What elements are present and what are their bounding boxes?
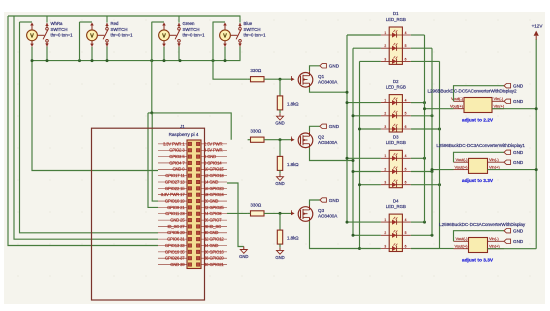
junction right D4 row 2 [431,234,434,237]
wire D4 row 3 right [411,248,440,250]
buck U2 pins and pin names [454,157,505,170]
LED D3 body [389,150,402,187]
LED D2 body [389,95,402,132]
wire buck U3 Vin+ to +12V rail [488,248,537,250]
svg-text:5: 5 [405,167,407,171]
wire top rail [8,15,241,17]
svg-text:1: 1 [384,31,386,35]
svg-text:D1: D1 [393,11,399,16]
connector J1 pin header strip [187,140,201,269]
grid dots [17,19,530,276]
junction right D4 row 1 [423,221,426,224]
junction D3 row 3 [358,183,361,186]
svg-text:SWITCH: SWITCH [244,27,261,32]
junction right D3 row 1 [423,157,426,160]
resistor R2 330 [250,129,264,143]
svg-text:16 GPIO23: 16 GPIO23 [204,186,224,191]
junction D2 row 1 [346,101,349,104]
voltage probe V Blue [220,23,231,47]
wire R3 to gate [248,212,251,214]
svg-text:thr=0 ton=1: thr=0 ton=1 [244,33,267,38]
svg-text:1.8kΩ: 1.8kΩ [287,162,299,167]
wire D2 row 2 left [353,115,381,117]
svg-text:Q2: Q2 [318,135,325,140]
wire source Q2 to LED column [310,148,354,161]
wire bracket switch2 riser [79,21,81,23]
junction +12V rail buck1 [535,107,538,110]
svg-text:22 GPIO25: 22 GPIO25 [204,205,224,210]
power symbol +12V [532,23,544,39]
wire source Q1 to LED column [310,87,348,92]
connector J1 boundary box [92,128,205,300]
wire D1 row 1 left [347,34,381,36]
svg-text:thr=0 ton=1: thr=0 ton=1 [111,33,134,38]
svg-text:6: 6 [405,181,407,185]
svg-text:GND: GND [275,181,284,186]
svg-text:6: 6 [405,57,407,61]
svg-text:GND: GND [513,160,524,165]
gate pin arrow Q1 [291,76,295,81]
svg-text:Vin(+): Vin(+) [489,164,500,169]
svg-text:18 GPIO24: 18 GPIO24 [204,192,224,197]
svg-text:GPIO11 23: GPIO11 23 [165,211,185,216]
wire R2 to gate [248,139,251,141]
wire D3 row 1 right [411,157,425,159]
svg-text:GPIO19 35: GPIO19 35 [165,249,185,254]
junction gate node Q1 [279,78,282,81]
svg-text:3.3V PWR 17: 3.3V PWR 17 [161,192,186,197]
svg-text:4: 4 [405,154,407,158]
label WhRa SWITCH [51,21,74,37]
svg-text:Vin(+): Vin(+) [489,243,500,248]
wire bracket Green switch [152,21,165,23]
wire D2 row 1 left [347,102,381,104]
LED D1 body [389,27,402,64]
svg-text:GPIO5 29: GPIO5 29 [167,230,185,235]
LED D4 element row 2 [381,230,411,238]
svg-text:GPIO26 37: GPIO26 37 [165,256,185,261]
junction dots on rail [31,59,227,62]
wire Green probe to rail [163,47,165,61]
svg-text:LED_RGB: LED_RGB [386,204,406,209]
wire gate node down to pulldown R [279,79,281,96]
junction right D2 row 3 [438,128,441,131]
svg-text:2: 2 [384,167,386,171]
svg-text:adjust to 3.3V: adjust to 3.3V [462,178,494,184]
pin row 13/14 of J1 [158,179,227,184]
pin row 35/36 of J1 [158,249,227,254]
svg-text:6 GND: 6 GND [204,154,216,159]
svg-text:GND 25: GND 25 [170,218,185,223]
buck converter U3 body [469,238,488,253]
svg-text:38 GPIO20: 38 GPIO20 [204,256,224,261]
wire buck U3 Vout- to GND [454,231,505,242]
svg-text:4: 4 [405,31,407,35]
junction Q2 source on column 2 [352,159,355,162]
svg-text:1.8kΩ: 1.8kΩ [287,236,299,241]
wire D2 row 3 left [360,128,381,130]
pin row 19/20 of J1 [158,198,227,203]
svg-text:14 GND: 14 GND [204,179,218,184]
pin row 15/16 of J1 [158,186,227,191]
svg-text:ID_SC 27: ID_SC 27 [168,224,186,229]
svg-text:6: 6 [405,244,407,248]
pin row 27/28 of J1 [158,224,227,229]
label Red SWITCH [111,21,134,37]
LED D2 element row 3 [381,124,411,132]
junction Q1 source on column 1 [346,91,349,94]
svg-text:GND: GND [275,121,284,126]
switch WhRa SWITCH [38,16,49,47]
pin row 11/12 of J1 [158,173,227,178]
wire D1 row 2 left [353,47,381,49]
svg-text:2: 2 [384,231,386,235]
svg-text:AO3400A: AO3400A [318,79,338,84]
svg-text:3: 3 [384,244,386,248]
svg-text:GND: GND [513,84,524,89]
svg-text:GND: GND [513,229,524,234]
wire bracket WhRa switch [20,21,33,23]
junction gate node Q3 [279,212,282,215]
svg-text:J1: J1 [180,124,185,129]
pin row 9/10 of J1 [158,167,227,172]
wire buck U1 Vout- to GND [454,86,505,102]
svg-text:GND 9: GND 9 [172,167,185,172]
svg-text:GND: GND [513,99,524,104]
svg-text:Vout(+): Vout(+) [450,103,464,108]
wire left vertical to GPIO pin row3 [14,16,158,239]
global label GND upper buck U3 [504,229,511,233]
junction D4 row 1 [346,221,349,224]
junction gate node Q2 [279,138,282,141]
wire bracket Blue switch [213,21,226,23]
ground symbol block 3 [279,247,281,250]
svg-text:Raspberry pi 4: Raspberry pi 4 [169,132,199,137]
wire switch2 branch to rail [79,22,81,61]
wire switch4 net riser to R1 [213,22,248,79]
pin row 37/38 of J1 [158,256,227,261]
svg-text:GND 39: GND 39 [170,262,185,267]
junction right D3 row 3 [438,183,441,186]
svg-text:LED_RGB: LED_RGB [386,84,406,89]
pin row 21/22 of J1 [158,205,227,210]
LED D4 element row 3 [381,243,411,251]
svg-text:GPIO3 5: GPIO3 5 [169,154,185,159]
wire drain Q2 to GND label [310,126,320,132]
svg-text:D2: D2 [393,79,399,84]
wire D1 row 3 right [411,60,440,62]
svg-text:SWITCH: SWITCH [51,27,68,32]
voltage probe V Green [159,23,170,47]
switch Blue SWITCH [231,16,242,47]
svg-text:GND: GND [275,255,284,260]
wire buck U2 Vin+ to +12V rail [488,169,537,171]
svg-text:+12V: +12V [532,23,544,28]
buck U3 pins and pin names [454,236,505,249]
wire D4 row 2 left [353,234,381,236]
svg-text:3: 3 [384,125,386,129]
wire buck U2 Vout- to GND [454,152,505,162]
global label GND at Vin- buck U1 [504,99,511,103]
pin row 31/32 of J1 [158,237,227,242]
wire WhRa probe to rail [31,47,33,61]
svg-text:V: V [30,33,34,39]
svg-text:SWITCH: SWITCH [111,27,128,32]
global label GND at Vin- buck U3 [504,239,511,243]
pin row 29/30 of J1 [158,230,227,235]
global label GND at Q2 drain [320,124,327,128]
wire drain Q1 to GND label [310,66,320,72]
LED D4 element row 1 [381,217,411,225]
wire switch3 net riser [151,22,153,113]
pin row 23/24 of J1 [158,211,227,216]
switch Red SWITCH [98,16,109,47]
switch Green SWITCH [170,16,181,47]
svg-text:2 5V PWR: 2 5V PWR [204,141,222,146]
svg-text:V: V [223,33,227,39]
global label GND at Q3 drain [320,198,327,202]
pin row 39/40 of J1 [158,262,227,267]
wire Blue switch to rail [239,47,241,61]
junction right D3 row 2 [431,170,434,173]
label Blue SWITCH [244,21,267,37]
wire WhRa switch to rail [46,47,48,61]
svg-text:5: 5 [405,231,407,235]
wire D4 row 1 right [411,221,425,223]
wire Red probe to rail [91,47,93,61]
svg-text:GPIO13 33: GPIO13 33 [165,243,185,248]
wire +12V rail [535,39,537,249]
LED D3 element row 1 [381,153,411,161]
svg-text:330Ω: 330Ω [250,129,262,134]
svg-text:12 GPIO18: 12 GPIO18 [204,173,224,178]
wire R1 to gate [248,78,251,80]
wire D3 row 3 left [360,184,381,186]
wire gate node down to pulldown R [279,213,281,230]
svg-text:4: 4 [405,99,407,103]
wire D2 row 3 right [411,128,440,130]
wire D3 row 2 left [353,171,381,173]
wire bottom rail [32,60,241,62]
wire switch3 net horizontal run [148,113,231,140]
junction +12V rail buck2 [535,168,538,171]
svg-text:adjust to 3.3V: adjust to 3.3V [462,257,494,263]
svg-text:V: V [162,33,166,39]
ground symbol at J1 [243,247,245,250]
svg-text:4: 4 [405,218,407,222]
LED D4 body [389,214,402,251]
svg-text:36 GPIO16: 36 GPIO16 [204,249,224,254]
label Green SWITCH [183,21,206,37]
svg-text:Blue: Blue [244,21,253,26]
junction Q3 source on column 3 [358,247,361,250]
global label GND upper buck U2 [504,150,511,154]
svg-text:AO3400A: AO3400A [318,214,338,219]
wire D1 row 3 left [360,60,381,62]
svg-text:Vout(+): Vout(+) [454,164,468,169]
svg-text:GND: GND [329,124,340,129]
wire LED column 1 (red rows) [346,35,348,222]
wire switch1 branch down to GPIO pin row2 [20,22,159,233]
svg-text:GND: GND [513,239,524,244]
resistor pulldown 1.8k block 2 [277,156,299,170]
svg-text:AO3400A: AO3400A [318,140,338,145]
pin row 17/18 of J1 [158,192,227,197]
svg-text:Q1: Q1 [318,74,325,79]
svg-text:1.8kΩ: 1.8kΩ [287,101,299,106]
svg-text:24 GPIO8: 24 GPIO8 [204,211,222,216]
wire D2 row 2 right [411,115,432,117]
voltage probe V Red [87,23,98,47]
svg-text:8 GPIO14: 8 GPIO14 [204,160,222,165]
wire D4 row 2 right [411,234,432,236]
pin row 33/34 of J1 [158,243,227,248]
svg-text:Vin(+): Vin(+) [494,103,505,108]
svg-text:GPIO6 31: GPIO6 31 [167,237,185,242]
junction right D2 row 2 [431,114,434,117]
junction buck U2 on column [431,168,434,171]
svg-text:1: 1 [384,218,386,222]
wire D1 row 2 right [411,47,432,49]
LED D3 element row 3 [381,180,411,188]
svg-text:Vout(-): Vout(-) [455,157,468,162]
wire pulldown to ground block 2 [279,170,281,173]
ground symbol block 2 [279,174,281,177]
resistor pulldown 1.8k block 1 [277,96,299,110]
LED D3 element row 2 [381,166,411,174]
svg-text:GPIO2 3: GPIO2 3 [169,148,185,153]
svg-text:D4: D4 [393,198,399,203]
resistor pulldown 1.8k block 3 [277,230,299,244]
junction D2 row 3 [358,128,361,131]
gate pin arrow Q2 [291,137,295,142]
svg-text:330Ω: 330Ω [250,202,262,207]
wire Blue probe to rail [224,47,226,61]
junction D3 row 1 [346,157,349,160]
svg-text:40 GPIO21: 40 GPIO21 [204,262,224,267]
svg-text:GPIO17 11: GPIO17 11 [165,173,185,178]
svg-text:5: 5 [405,112,407,116]
wire rail branch down to GPIO pin row1 [32,61,158,171]
svg-text:4 5V PWR: 4 5V PWR [204,148,222,153]
svg-text:GPIO9 21: GPIO9 21 [167,205,185,210]
svg-text:1: 1 [384,99,386,103]
svg-text:20 GND: 20 GND [204,198,218,203]
svg-text:Vout(-): Vout(-) [451,96,464,101]
wire bracket Red switch [80,21,93,23]
pin row 1/2 of J1 [158,141,227,146]
buck converter U2 body [469,158,488,173]
svg-text:3: 3 [384,57,386,61]
wire D3 row 2 right [411,171,432,173]
wire D2 row 1 right [411,102,425,104]
wire buck U1 Vin+ to +12V rail [492,108,536,110]
svg-text:thr=0 ton=1: thr=0 ton=1 [51,33,74,38]
global label GND at Vin- buck U2 [504,160,511,164]
wire buck U2 Vout+ to LED column [432,169,454,171]
wire Green switch to rail [178,47,180,61]
resistor R3 330 [250,202,264,216]
svg-text:Red: Red [111,21,119,26]
svg-text:26 GPIO7: 26 GPIO7 [204,218,222,223]
svg-text:GPIO27 13: GPIO27 13 [165,179,185,184]
svg-text:Vin(-): Vin(-) [489,236,499,241]
wire left vertical to GPIO pin row4 [8,16,158,246]
svg-text:GND: GND [329,198,340,203]
svg-text:Vout(-): Vout(-) [455,236,468,241]
junction D4 row 2 [352,234,355,237]
svg-text:GPIO4 7: GPIO4 7 [169,160,185,165]
wire GPIO25 pin to R3 [227,212,248,214]
junction right D2 row 1 [423,101,426,104]
pin row 5/6 of J1 [158,154,227,159]
transistor Q1 AO3400A [298,71,338,87]
svg-text:L296BBuckDC-DC5AConverterWithD: L296BBuckDC-DC5AConverterWithDisplay2 [428,88,518,93]
LED D1 element row 2 [381,43,411,51]
ground symbol block 1 [279,113,281,116]
svg-text:L2596BuckDC-DC3AConverterWithD: L2596BuckDC-DC3AConverterWithDisplay1 [436,143,525,148]
wire D3 row 3 right [411,184,440,186]
svg-text:Vin(-): Vin(-) [489,157,499,162]
svg-text:Vout(+): Vout(+) [454,243,468,248]
wire branch to GPIO10 pin [148,113,158,207]
svg-text:32 GPIO12: 32 GPIO12 [204,237,224,242]
LED D2 element row 1 [381,97,411,105]
svg-text:GND: GND [239,254,248,259]
wire D1 row 1 right [411,34,425,36]
svg-text:GND: GND [329,64,340,69]
wire drain Q3 to GND label [310,200,320,206]
svg-text:34 GND: 34 GND [204,243,218,248]
svg-text:Green: Green [183,21,196,26]
global label GND upper buck U1 [504,84,511,88]
svg-text:V: V [90,33,94,39]
svg-text:3: 3 [384,181,386,185]
wire pulldown to ground block 3 [279,244,281,247]
transistor Q2 AO3400A [298,132,338,148]
wire pulldown to ground block 1 [279,110,281,113]
svg-text:Vin(-): Vin(-) [494,96,504,101]
svg-text:GPIO22 15: GPIO22 15 [165,186,185,191]
pin row 7/8 of J1 [158,160,227,165]
buck converter U1 body [464,98,492,113]
buck U1 pins and pin names [450,96,505,109]
pin row 3/4 of J1 [158,148,227,153]
LED D2 element row 2 [381,111,411,119]
wire source Q3 to LED column [310,221,360,248]
wire D3 row 1 left [347,157,381,159]
wire GND pin to ground [227,183,244,247]
wire right column 2 [431,48,433,235]
wire right column 3 [439,61,441,248]
svg-text:28 ID_SC: 28 ID_SC [204,224,221,229]
junction D2 row 2 [352,114,355,117]
svg-text:L2596BuckDC-DC3AConverterWithD: L2596BuckDC-DC3AConverterWithDisplay [439,222,526,227]
wire LED column 3 (blue rows) [359,61,361,248]
svg-text:3.3V PWR 1: 3.3V PWR 1 [163,141,185,146]
LED D1 element row 3 [381,56,411,64]
global label GND at Q1 drain [320,64,327,68]
svg-text:LED_RGB: LED_RGB [386,140,406,145]
svg-text:LED_RGB: LED_RGB [386,17,406,22]
voltage probe V WhRa [27,23,38,47]
junction switch3 net [150,111,153,114]
svg-text:Q3: Q3 [318,208,325,213]
pin row 25/26 of J1 [158,218,227,223]
wire Red switch to rail [106,47,108,61]
svg-text:GND: GND [513,150,524,155]
wire buck U3 Vout+ to LED column [440,248,454,250]
